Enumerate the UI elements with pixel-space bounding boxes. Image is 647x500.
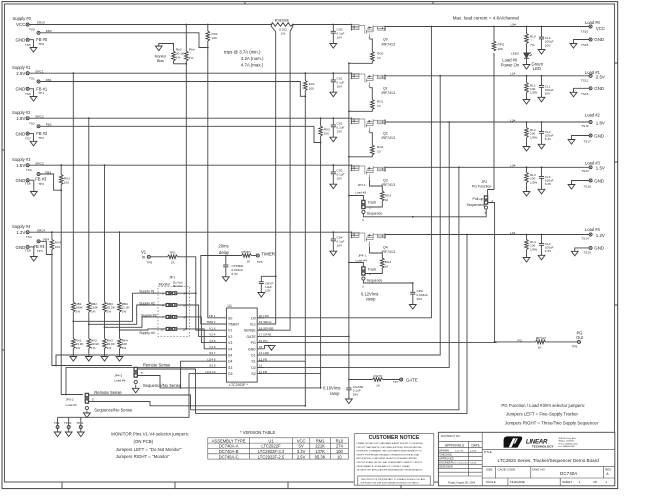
svg-text:1.5V: 1.5V <box>16 163 25 168</box>
svg-text:Max. load current = 4.8A/chann: Max. load current = 4.8A/channel <box>453 15 519 20</box>
resistor RV1 <box>168 255 178 259</box>
svg-text:1.2V: 1.2V <box>16 230 25 235</box>
svg-text:10: 10 <box>385 264 389 268</box>
svg-text:TMR 2: TMR 2 <box>206 320 216 324</box>
svg-text:11 FB: 11 FB <box>259 370 267 374</box>
svg-text:1: 1 <box>162 292 164 296</box>
svg-text:TP3: TP3 <box>38 182 44 186</box>
svg-text:ramp: ramp <box>366 296 376 301</box>
resistor Rbh <box>185 25 187 52</box>
svg-text:16 PG: 16 PG <box>259 339 268 343</box>
terminal TP6 TIMER <box>256 254 259 257</box>
wire LD4 remote riser <box>466 234 468 236</box>
wire rail4 load side <box>385 234 589 236</box>
resistor RX2 <box>320 117 322 119</box>
wire SRC3 rail <box>29 164 351 166</box>
svg-text:Out: Out <box>576 335 584 340</box>
svg-text:Power On: Power On <box>501 62 520 67</box>
wires JP1 to bias bus <box>175 293 186 329</box>
svg-text:S3 9: S3 9 <box>209 364 216 368</box>
svg-text:2.5V: 2.5V <box>596 74 605 79</box>
jumper JP1 row4 <box>166 327 177 330</box>
svg-text:1%: 1% <box>91 346 96 350</box>
svg-text:10: 10 <box>377 104 381 108</box>
svg-text:Supply #1: Supply #1 <box>12 65 31 70</box>
svg-text:L3#: L3# <box>510 163 515 167</box>
svg-text:1.2V: 1.2V <box>596 233 605 238</box>
terminal TS4 1.2V <box>26 231 29 234</box>
jumper JP5-2 <box>85 393 89 409</box>
svg-text:Supply #2: Supply #2 <box>139 301 155 305</box>
svg-text:LTC2922F-2.5: LTC2922F-2.5 <box>258 454 285 459</box>
svg-text:S1: S1 <box>251 360 255 364</box>
capacitor CS2 <box>332 117 334 119</box>
wire gnd hook <box>29 40 33 48</box>
svg-text:PERFORMANCE OR RELIABILITY. CO: PERFORMANCE OR RELIABILITY. CONTACT LINE… <box>357 465 411 468</box>
svg-text:Jumpers RIGHT = Three/Two Supp: Jumpers RIGHT = Three/Two Supply Sequenc… <box>505 420 599 425</box>
svg-text:TP6: TP6 <box>257 260 263 264</box>
svg-text:1K: 1K <box>171 261 176 265</box>
svg-text:TS0: TS0 <box>29 28 35 32</box>
svg-text:LTC2922F-3.3: LTC2922F-3.3 <box>258 449 285 454</box>
svg-text:Load #4: Load #4 <box>356 259 367 263</box>
capacitor CS0 <box>332 24 334 26</box>
svg-text:Sequence/No Sense: Sequence/No Sense <box>143 383 182 388</box>
terminal GND TS5 <box>26 38 29 41</box>
svg-text:10: 10 <box>385 198 389 202</box>
wire gnd hook <box>29 247 34 257</box>
svg-text:1.8V: 1.8V <box>16 116 25 121</box>
wire RB3 bus <box>104 164 106 166</box>
svg-text:TS9: TS9 <box>25 249 31 253</box>
svg-text:Q4: Q4 <box>383 245 388 249</box>
svg-text:Load #4: Load #4 <box>585 227 601 232</box>
ground <box>30 97 37 102</box>
svg-text:V2: V2 <box>228 335 232 339</box>
svg-text:L1#: L1# <box>510 72 515 76</box>
wire FB0 bus down to IC pin1 <box>208 48 217 318</box>
svg-text:PG Function: PG Function <box>472 184 492 188</box>
svg-text:S3: S3 <box>228 366 232 370</box>
svg-text:CIRCUIT THAT MEETS CUSTOMER-SU: CIRCUIT THAT MEETS CUSTOMER-SUPPLIED SPE… <box>357 446 423 449</box>
wire SRC1 rail <box>29 72 351 74</box>
resistor RA3 <box>103 339 107 349</box>
svg-text:TECHNOLOGY: TECHNOLOGY <box>532 445 555 449</box>
svg-text:TP2: TP2 <box>38 136 44 140</box>
wire rail0 load side <box>385 26 589 28</box>
svg-text:DATE: DATE <box>472 443 480 447</box>
svg-text:Q3: Q3 <box>383 178 388 182</box>
svg-text:15: 15 <box>259 345 263 349</box>
svg-text:6.3V: 6.3V <box>232 272 239 276</box>
resistor RG1 <box>370 88 373 100</box>
svg-text:6-3-04: 6-3-04 <box>470 451 477 453</box>
svg-text:V3: V3 <box>228 341 232 345</box>
wire JP4-2 sequence/no sense <box>137 376 320 388</box>
resistor RX3 <box>60 165 62 174</box>
svg-text:TS19: TS19 <box>583 250 591 254</box>
svg-text:Supply #1: Supply #1 <box>139 290 155 294</box>
svg-text:RSENSE: RSENSE <box>275 18 290 22</box>
ground <box>30 141 37 146</box>
svg-text:GND: GND <box>594 178 604 183</box>
svg-text:Q2: Q2 <box>383 131 388 135</box>
svg-text:TP7: TP7 <box>393 380 399 384</box>
svg-text:FB2: FB2 <box>46 123 52 127</box>
svg-text:V1 3: V1 3 <box>209 326 216 330</box>
svg-text:Load #0: Load #0 <box>585 20 601 25</box>
svg-text:RPGO: RPGO <box>536 337 547 341</box>
wire rail1 load side <box>385 75 589 77</box>
terminal TS2 1.8V <box>26 117 29 120</box>
svg-text:7%: 7% <box>530 43 535 47</box>
wire bias bus down to JP1 <box>185 64 187 329</box>
svg-text:17 GATE: 17 GATE <box>259 333 272 337</box>
svg-text:RL0: RL0 <box>336 438 344 443</box>
LED0 <box>524 53 529 58</box>
wire supply2 tap staircase <box>89 305 166 324</box>
svg-text:6.3V: 6.3V <box>545 249 552 253</box>
IC left pin stubs <box>217 318 226 374</box>
svg-text:1%: 1% <box>91 309 96 313</box>
wire V1 net to IC <box>186 293 217 330</box>
svg-text:100: 100 <box>336 449 344 454</box>
svg-text:2.5V: 2.5V <box>297 454 306 459</box>
test point TP10 <box>67 426 70 429</box>
svg-text:7: 7 <box>162 315 164 319</box>
svg-text:Jumpers LEFT = Five-Supply Tra: Jumpers LEFT = Five-Supply Tracker <box>506 411 579 416</box>
terminal TP8 PG Out <box>578 340 581 343</box>
svg-text:Q0: Q0 <box>383 38 388 42</box>
resistor RSENSE kelvin <box>271 23 293 27</box>
resistor RL2 <box>526 121 528 123</box>
svg-text:Monitor: Monitor <box>173 284 183 288</box>
svg-text:Milpitas, CA 95035: Milpitas, CA 95035 <box>559 440 575 443</box>
svg-text:TS7: TS7 <box>25 137 31 141</box>
wire gate line to TP7 <box>349 379 373 381</box>
svg-text:10: 10 <box>161 327 165 331</box>
wire rail3 load side <box>385 166 589 168</box>
svg-text:June 'RL: June 'RL <box>455 451 464 453</box>
wire pin8 drop <box>181 361 217 388</box>
svg-text:S0: S0 <box>228 316 232 320</box>
svg-text:LTC2922 Series, Tracker/Sequen: LTC2922 Series, Tracker/Sequencer Demo B… <box>498 458 600 463</box>
wire V4 net to IC <box>186 329 217 349</box>
svg-text:3: 3 <box>362 284 364 288</box>
svg-text:TS15: TS15 <box>581 43 589 47</box>
svg-text:APPROVED: APPROVED <box>439 456 454 460</box>
svg-text:GND: GND <box>16 131 26 136</box>
svg-text:5: 5 <box>141 371 143 375</box>
svg-text:TS17: TS17 <box>583 140 591 144</box>
wire kelvin SENSE- <box>257 32 290 331</box>
test point TP9 <box>56 426 59 429</box>
svg-text:LED: LED <box>533 66 541 71</box>
svg-text:LD4 8: LD4 8 <box>207 357 216 361</box>
wire V3 net to IC <box>186 317 217 343</box>
wire SRC2 rail <box>29 117 351 119</box>
capacitor CL4 <box>541 234 543 236</box>
svg-text:10V: 10V <box>337 129 343 133</box>
svg-text:FB3: FB3 <box>45 170 51 174</box>
svg-text:FB4: FB4 <box>43 238 49 242</box>
op-amp U1 body <box>226 308 257 382</box>
jumper JP4-2 <box>134 367 138 383</box>
svg-text:Load #4: Load #4 <box>114 379 125 383</box>
svg-text:95.3K: 95.3K <box>315 454 326 459</box>
svg-text:3: 3 <box>484 211 486 215</box>
wire gnd hook <box>29 134 33 142</box>
svg-text:Sequence: Sequence <box>367 278 383 282</box>
svg-text:Supply #3: Supply #3 <box>141 313 157 317</box>
svg-text:1%: 1% <box>176 55 181 59</box>
svg-text:SRC0: SRC0 <box>37 21 46 25</box>
svg-text:221K: 221K <box>315 444 325 449</box>
wire FB2 bus down <box>320 143 322 388</box>
svg-text:SRC2: SRC2 <box>35 114 44 118</box>
wire supply3 tap staircase <box>105 317 167 327</box>
svg-text:GND: GND <box>594 133 604 138</box>
wire sequence line <box>413 209 486 217</box>
wire gnd hook <box>29 89 33 97</box>
svg-text:APPROVALS: APPROVALS <box>445 443 464 447</box>
svg-text:10: 10 <box>377 56 381 60</box>
svg-text:1%: 1% <box>76 309 81 313</box>
svg-text:100: 100 <box>309 86 314 90</box>
svg-text:LD3 10: LD3 10 <box>206 370 216 374</box>
svg-text:FB0: FB0 <box>46 29 52 33</box>
capacitor CL2 <box>541 121 543 123</box>
wire S4 bus down <box>52 255 132 366</box>
transistor Q2 <box>351 118 386 133</box>
jumper JP3-1 <box>349 196 364 201</box>
wire FB1 <box>40 82 305 97</box>
svg-text:1K: 1K <box>246 259 251 263</box>
svg-text:20ms: 20ms <box>218 243 228 248</box>
svg-text:HOWEVER, IT REMAINS THE CUSTOM: HOWEVER, IT REMAINS THE CUSTOMER'S RESPO… <box>357 450 423 453</box>
svg-text:1%: 1% <box>107 309 112 313</box>
wire LD3 remote riser <box>458 166 460 168</box>
terminal GND TS6 <box>26 87 29 90</box>
svg-text:V4: V4 <box>228 347 232 351</box>
svg-text:TS3: TS3 <box>26 168 32 172</box>
svg-text:SCALE: SCALE <box>486 480 496 484</box>
resistor RB2 <box>87 302 91 312</box>
svg-text:TP0: TP0 <box>38 42 44 46</box>
svg-text:DC740A-A: DC740A-A <box>219 444 239 449</box>
svg-text:6-3-04: 6-3-04 <box>470 462 477 464</box>
wire TIMER net <box>201 256 242 325</box>
resistor RA2 <box>87 339 91 349</box>
wire LD0 vertical <box>431 26 433 28</box>
svg-text:1.8V: 1.8V <box>596 120 605 125</box>
terminal GND TS8 <box>26 179 29 182</box>
svg-text:LINEAR TECHNOLOGY HAS MADE A B: LINEAR TECHNOLOGY HAS MADE A BEST EFFORT… <box>357 442 424 445</box>
svg-text:GND: GND <box>594 86 604 91</box>
svg-text:1/2W: 1/2W <box>530 135 537 139</box>
svg-text:TP1: TP1 <box>38 91 44 95</box>
svg-text:6.3V: 6.3V <box>545 137 552 141</box>
svg-text:25V: 25V <box>353 392 359 396</box>
svg-text:10V: 10V <box>337 84 343 88</box>
jumper JP2 <box>484 196 488 209</box>
terminal FB1 <box>37 80 40 83</box>
svg-text:D1: D1 <box>251 354 256 358</box>
svg-text:12: 12 <box>182 327 186 331</box>
svg-text:ASSEMBLY TYPE: ASSEMBLY TYPE <box>212 438 246 443</box>
transistor Q0 <box>351 24 386 39</box>
svg-text:JP4-1: JP4-1 <box>358 254 366 258</box>
resistor RX1 <box>304 72 306 74</box>
resistor RTMO <box>242 254 252 258</box>
svg-text:137K: 137K <box>315 449 325 454</box>
svg-text:3.3V: 3.3V <box>297 449 306 454</box>
terminal TP7 GATE <box>400 378 403 381</box>
svg-text:TS11: TS11 <box>581 78 588 82</box>
wire FB4 <box>40 241 52 254</box>
svg-text:10V: 10V <box>265 289 271 293</box>
svg-text:1K: 1K <box>538 345 543 349</box>
wires IC left pins 7-10 <box>56 355 217 366</box>
svg-text:CIRCUIT BOARD LAYOUT MAY SIGNI: CIRCUIT BOARD LAYOUT MAY SIGNIFICANTLY A… <box>357 461 423 464</box>
svg-text:IRF7413: IRF7413 <box>382 43 395 47</box>
svg-text:Remote Sense: Remote Sense <box>143 362 171 367</box>
svg-text:DC740A-B: DC740A-B <box>219 449 239 454</box>
svg-text:APPLICATION. COMPONENT SUBSTIT: APPLICATION. COMPONENT SUBSTITUTION AND … <box>357 457 418 460</box>
svg-text:SRC4: SRC4 <box>37 228 46 232</box>
svg-text:SIZE: SIZE <box>486 467 493 471</box>
svg-text:DRAWN: DRAWN <box>439 448 449 452</box>
wire kelvin SENSE+ <box>257 32 276 325</box>
test point V1 In TP5 <box>147 255 150 258</box>
svg-text:GND: GND <box>248 347 256 351</box>
svg-text:Vcc: Vcc <box>250 323 256 327</box>
capacitor CPG <box>412 283 414 292</box>
svg-text:CONTRACT NO.: CONTRACT NO. <box>441 434 461 438</box>
wire FB3 <box>40 174 61 190</box>
svg-text:TS1: TS1 <box>29 76 35 80</box>
resistor RG2 <box>370 133 373 145</box>
svg-text:3: 3 <box>183 292 185 296</box>
svg-text:In: In <box>142 254 146 259</box>
svg-text:V4 6: V4 6 <box>209 345 216 349</box>
resistor RL0 <box>526 26 528 28</box>
svg-text:GATE: GATE <box>406 378 418 383</box>
svg-text:1630 McCarthy Blvd.: 1630 McCarthy Blvd. <box>559 437 577 440</box>
terminal FB0 <box>37 31 40 34</box>
capacitor CS3 <box>332 164 334 166</box>
svg-text:Load #3: Load #3 <box>355 191 366 195</box>
svg-text:SUPPLIED FOR USE WITH LINEAR T: SUPPLIED FOR USE WITH LINEAR TECHNOLOGY … <box>361 482 420 485</box>
ground <box>30 48 37 53</box>
svg-text:DWG NO: DWG NO <box>532 467 545 471</box>
jumper JP1 row3 <box>166 315 177 318</box>
svg-text:V2 4: V2 4 <box>209 333 216 337</box>
svg-text:JP1: JP1 <box>169 276 175 280</box>
customer notice body <box>357 442 426 485</box>
svg-text:CAGE CODE: CAGE CODE <box>497 467 515 471</box>
svg-text:U1: U1 <box>268 438 274 443</box>
terminal FB4 <box>37 240 40 243</box>
jumper JP4-1 <box>349 263 364 267</box>
svg-text:RTMO: RTMO <box>241 250 251 254</box>
transistor Q1 <box>351 73 386 88</box>
load #2 GND terminal <box>589 134 592 137</box>
svg-text:Load #3: Load #3 <box>66 403 77 407</box>
svg-text:* VERSION TABLE: * VERSION TABLE <box>240 430 276 435</box>
svg-text:0.10V/ms: 0.10V/ms <box>323 386 341 391</box>
svg-text:TS2: TS2 <box>29 121 35 125</box>
resistor RPGO <box>495 341 536 343</box>
svg-text:IRF7413: IRF7413 <box>382 91 395 95</box>
svg-text:GND: GND <box>16 245 26 250</box>
svg-text:9: 9 <box>183 315 185 319</box>
svg-text:1%: 1% <box>76 346 81 350</box>
svg-text:VERIFY PROPER AND RELIABLE OPE: VERIFY PROPER AND RELIABLE OPERATION IN … <box>357 453 420 456</box>
wire JP2 pin2 to PG <box>488 203 495 342</box>
wire JP2 pin1 pull-up <box>486 53 494 196</box>
capacitor CL0 <box>541 26 543 28</box>
svg-text:LTC2922F: LTC2922F <box>261 444 281 449</box>
svg-text:Remote Sense: Remote Sense <box>94 390 122 395</box>
svg-text:Monitor: Monitor <box>155 54 168 58</box>
svg-text:MONITOR Pins V1-V4 selector ju: MONITOR Pins V1-V4 selector jumpers: <box>111 432 189 437</box>
wire V2 net to IC <box>186 305 217 336</box>
resistor RA1 <box>72 339 76 349</box>
svg-text:D2: D2 <box>251 366 256 370</box>
svg-text:TS18: TS18 <box>583 185 591 189</box>
svg-text:6: 6 <box>183 304 185 308</box>
svg-text:VCC: VCC <box>16 22 25 27</box>
svg-text:TS14: TS14 <box>581 237 589 241</box>
svg-text:2.5V: 2.5V <box>16 71 25 76</box>
svg-text:10V: 10V <box>337 36 343 40</box>
svg-text:Q1: Q1 <box>383 86 388 90</box>
svg-text:FB1: FB1 <box>46 78 52 82</box>
svg-text:Jumpers RIGHT = "Monitor": Jumpers RIGHT = "Monitor" <box>116 454 170 459</box>
svg-text:FB 1: FB 1 <box>209 314 216 318</box>
svg-text:DESIGNER: DESIGNER <box>439 464 453 468</box>
wire D2 vertical <box>448 121 450 123</box>
terminal FB2 <box>37 125 40 128</box>
resistor RL3 <box>526 166 528 168</box>
wire FB0 <box>40 33 208 48</box>
svg-text:FILENAME: FILENAME <box>510 480 525 484</box>
svg-text:10K: 10K <box>498 47 504 51</box>
jumper JP1 row1 <box>166 292 177 295</box>
svg-text:Fax: (408)434-0507: Fax: (408)434-0507 <box>559 446 576 448</box>
svg-text:(ON PCB): (ON PCB) <box>134 439 154 444</box>
resistor RG0 <box>370 39 373 52</box>
svg-text:1/2W: 1/2W <box>530 180 537 184</box>
svg-text:TECHNOLOGY APPLICATIONS ENGINE: TECHNOLOGY APPLICATIONS ENGINEERING FOR … <box>357 469 423 472</box>
svg-text:10: 10 <box>377 149 381 153</box>
capacitor CL1 <box>541 75 543 77</box>
svg-text:Sequencing: Sequencing <box>467 203 486 207</box>
svg-text:10V: 10V <box>545 92 551 96</box>
transistor Q3 <box>351 165 386 180</box>
svg-text:LTC2922F *: LTC2922F * <box>229 383 248 387</box>
svg-text:S2: S2 <box>251 372 255 376</box>
svg-text:S4: S4 <box>228 354 232 358</box>
wire RB2 bus <box>88 117 90 119</box>
title block text <box>439 434 611 485</box>
svg-text:TP10: TP10 <box>64 421 72 425</box>
svg-text:CHECKED: CHECKED <box>439 452 452 456</box>
wire JP5-2 sequence/no sense <box>88 402 305 406</box>
wire LD1 vertical <box>439 75 441 77</box>
svg-text:GND: GND <box>594 246 604 251</box>
